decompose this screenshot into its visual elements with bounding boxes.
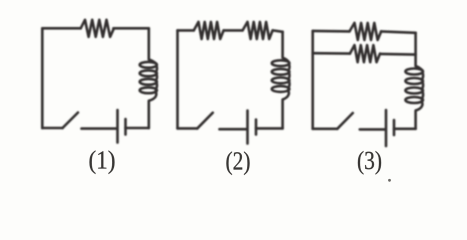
wire: circuit 2 top-right segment xyxy=(273,30,283,31)
wire: circuit 3 top branch left segment xyxy=(313,30,350,33)
label (3) xyxy=(358,151,381,175)
wire: circuit 3 second branch left segment xyxy=(313,52,350,55)
battery short plate (circuit 2) xyxy=(255,120,258,135)
wire: circuit 2 top-left segment xyxy=(178,29,194,32)
wire: circuit 2 left side xyxy=(176,30,179,128)
resistor 1 (circuit 2 top) xyxy=(194,22,224,39)
wire: circuit 3 second branch right segment xyxy=(380,53,415,56)
wire: circuit 3 bottom-left segment xyxy=(313,128,338,131)
wire: circuit 1 switch to battery xyxy=(82,127,117,130)
wire: circuit 1 battery to bottom-right corner xyxy=(126,127,149,130)
switch lever (circuit 1, open) xyxy=(63,113,79,129)
battery long plate (circuit 1) xyxy=(116,110,119,143)
battery long plate (circuit 3) xyxy=(385,110,388,146)
resistor (circuit 3 top branch) xyxy=(350,23,382,40)
wire: circuit 1 left side xyxy=(41,28,44,128)
battery short plate (circuit 1) xyxy=(124,119,127,135)
wire: circuit 2 between resistors xyxy=(224,29,243,32)
wire: circuit 2 bottom-left segment xyxy=(178,127,198,130)
wire: circuit 1 top-right segment xyxy=(113,27,148,30)
resistor (circuit 3 second branch) xyxy=(350,45,380,62)
switch lever (circuit 2, open) xyxy=(197,113,213,129)
wire: circuit 1 bottom-left segment xyxy=(42,127,62,130)
battery short plate (circuit 3) xyxy=(393,120,396,135)
wire: circuit 1 top-left segment xyxy=(42,27,80,30)
wire: circuit 3 left side xyxy=(311,31,314,129)
inductor coil (circuit 2 right) xyxy=(272,32,290,129)
switch lever (circuit 3, open) xyxy=(337,113,353,129)
inductor coil (circuit 3 right) xyxy=(405,33,423,129)
wire: circuit 2 switch to battery xyxy=(220,128,247,131)
resistor (circuit 1 top) xyxy=(81,20,114,37)
wire: circuit 3 switch to battery xyxy=(360,128,385,131)
resistor 2 (circuit 2 top) xyxy=(243,22,273,39)
battery long plate (circuit 2) xyxy=(246,111,249,144)
wire: circuit 3 top branch right segment xyxy=(381,31,416,32)
label (1) xyxy=(90,150,115,174)
label (2) xyxy=(226,151,249,175)
wire: circuit 3 battery to bottom-right corner xyxy=(394,128,416,131)
speck bottom right of label 3 xyxy=(388,179,391,182)
wire: circuit 2 battery to bottom-right corner xyxy=(256,127,283,130)
inductor coil (circuit 1 right) xyxy=(140,28,157,128)
